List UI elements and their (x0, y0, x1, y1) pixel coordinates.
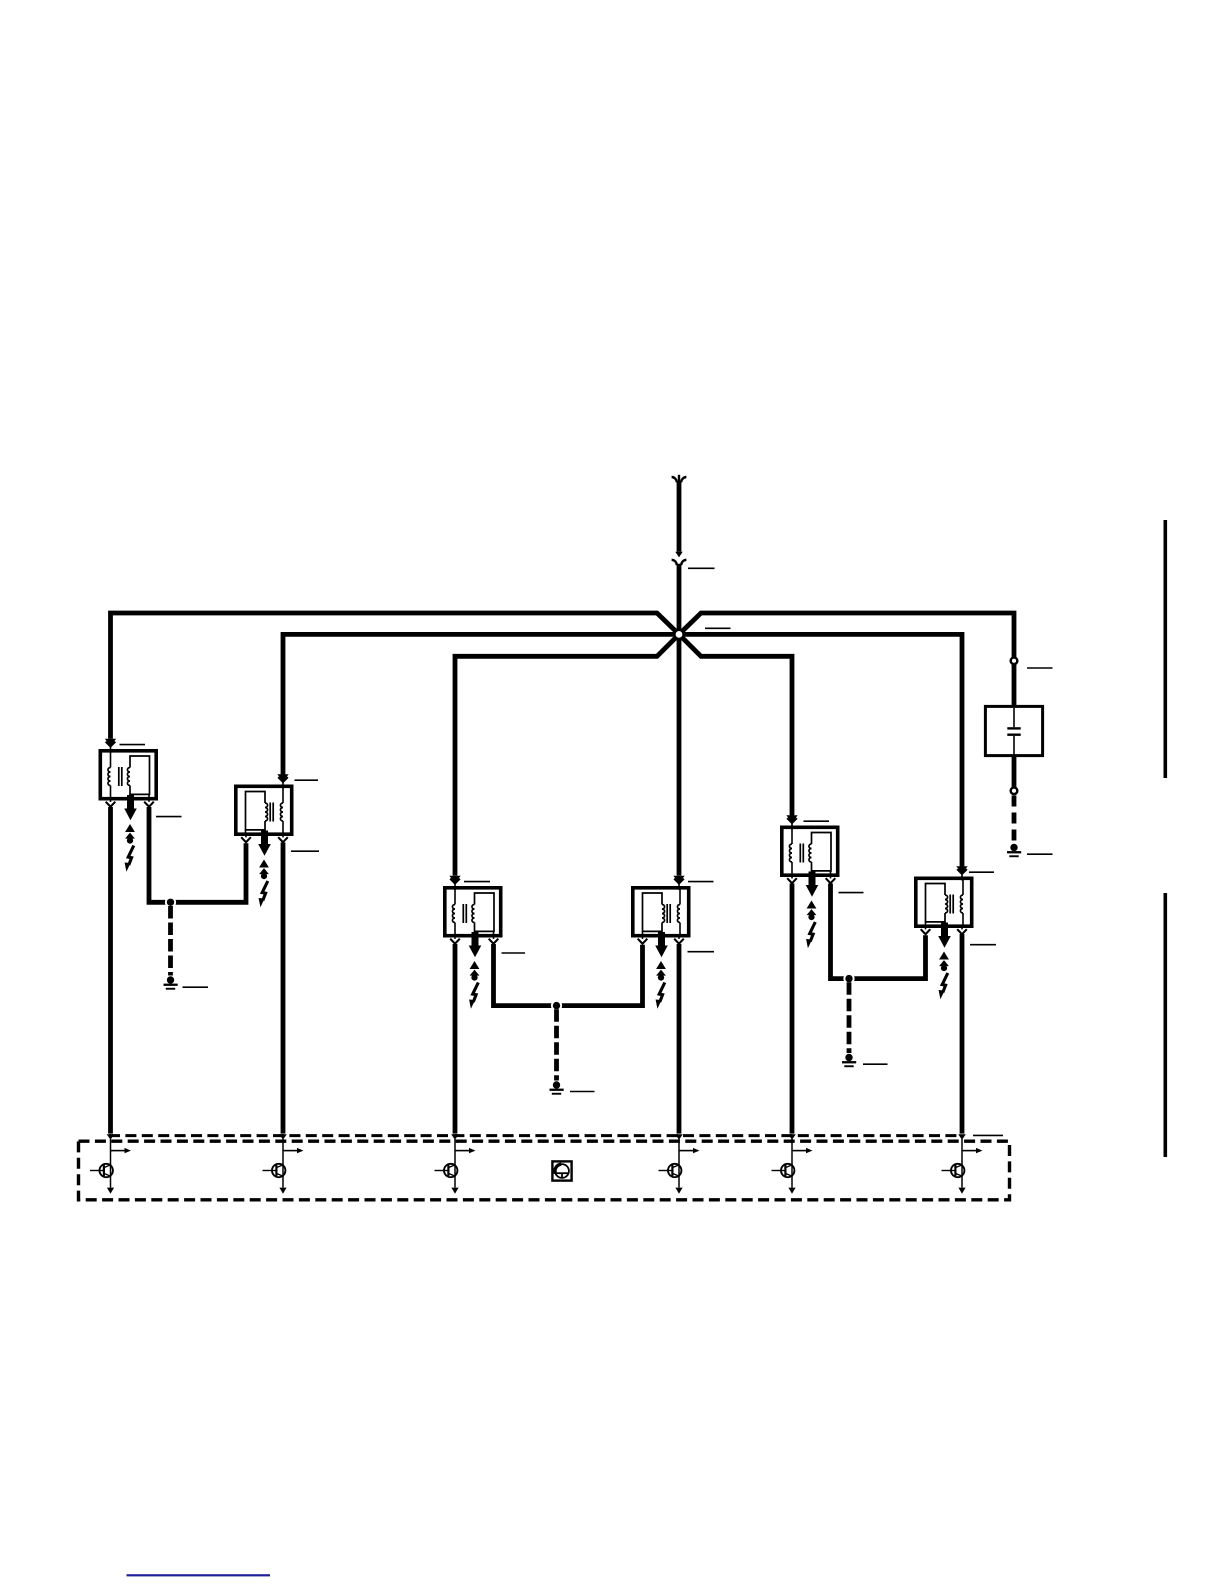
coil 5 bottom pins (791, 874, 793, 878)
wire: top-left bus to coil 1 (111, 613, 680, 739)
ECU output stage 5: internal line (791, 1139, 793, 1188)
wire: coil 6 primary to ECU (960, 934, 965, 1134)
coil N158 (coil 3) secondary winding (475, 893, 495, 931)
coil N189 (coil 6) primary winding (962, 880, 964, 896)
ECU output stage 1: branch arrow (111, 1150, 126, 1152)
ECU output stage 6: transistor (951, 1164, 964, 1177)
ECU (engine control unit, dashed box) (79, 1141, 1010, 1200)
ECU output stage 6: internal line (961, 1139, 963, 1188)
ground symbol coils 5+6 (845, 1054, 852, 1061)
connector into coil N158 (449, 876, 460, 883)
wire: coil 1 primary to ECU (108, 807, 113, 1134)
ignition coil N163 (coil 4) (box) (633, 888, 689, 936)
coil N128 (coil 2) primary winding (282, 788, 284, 804)
ECU output stage 3: entry arrow (451, 1134, 459, 1139)
connector dot above capacitor (1011, 658, 1018, 665)
ECU output stage 2: internal line (282, 1139, 284, 1188)
label leader coil6 top (969, 871, 994, 873)
dashed ground wire capacitor (1012, 796, 1017, 843)
label leader coil1 top (120, 744, 146, 746)
wire below capacitor (1012, 755, 1017, 787)
ECU output stage 2: emitter arrow to ground rail (279, 1188, 286, 1194)
label leader ECU (973, 1134, 1003, 1136)
dashed ground wire 1+2 (168, 906, 173, 976)
wire: main supply from top (terminal 15 feed) (677, 481, 682, 552)
coil 1 bottom pins (110, 798, 112, 802)
ECU output stage 6: emitter arrow to ground rail (958, 1188, 965, 1194)
label leader coil4 output (688, 951, 715, 953)
ECU output stage 3: emitter arrow to ground rail (451, 1188, 458, 1194)
coil N163 (coil 4) HV output with spark plug (658, 932, 665, 946)
coil N (coil 1) HV output with spark plug (127, 795, 134, 809)
ECU output stage 3: branch arrow (455, 1150, 470, 1152)
coil N158 (coil 3) core (462, 904, 464, 923)
connector dot below capacitor (1011, 788, 1018, 795)
connector into coil N128 (277, 774, 288, 781)
ECU output stage 5: entry arrow (788, 1134, 796, 1139)
ECU output stage 2: transistor (272, 1164, 285, 1177)
label leader junction (705, 627, 731, 629)
wire: middle-left bus to coil 2 (283, 634, 679, 774)
junction dot on link 3+4 (551, 1000, 562, 1011)
ECU output stage 3: internal line (454, 1139, 456, 1188)
ECU connector rail (inner dashed line) (109, 1134, 962, 1137)
wire: coil 3 primary to ECU (453, 944, 458, 1134)
ECU output stage 1: entry arrow (107, 1134, 115, 1139)
coil N189 (coil 6) HV output with spark plug (941, 923, 948, 937)
ECU output stage 4: internal line (678, 1139, 680, 1188)
label leader coil5 top (804, 820, 830, 822)
ground symbol capacitor (1010, 844, 1017, 851)
coil N189 (coil 6) core (949, 895, 951, 914)
ECU output stage 5: emitter arrow to ground rail (788, 1188, 795, 1194)
ECU output stage 1: transistor (100, 1164, 113, 1177)
label leader connector (688, 567, 715, 569)
label leader coil3 top (464, 881, 490, 883)
wire: secondary ground link coils 1+2 (149, 807, 246, 902)
page margin bar upper (1164, 520, 1168, 778)
coil N189 (coil 6) secondary winding (926, 884, 946, 922)
wire: bottom-left bus to coil 3 (455, 634, 679, 875)
label leader coil3 output (502, 952, 526, 954)
coil N164 (coil 5) primary winding (791, 829, 793, 845)
junction dot on link 5+6 (843, 973, 854, 984)
ECU output stage 4: emitter arrow to ground rail (675, 1188, 682, 1194)
wire: secondary ground link coils 3+4 (494, 944, 643, 1006)
coil N128 (coil 2) core (269, 803, 271, 822)
ECU output stage 5: branch arrow (792, 1150, 807, 1152)
label leader ground 5+6 (863, 1063, 888, 1065)
label leader ground capacitor (1027, 853, 1053, 855)
ECU output stage 4: transistor (668, 1164, 681, 1177)
ignition coil N158 (coil 3) (box) (445, 888, 501, 936)
ignition coil N (coil 1) (box) (100, 751, 156, 799)
label leader ground 3+4 (570, 1091, 595, 1093)
ECU output stage 6: branch arrow (962, 1150, 977, 1152)
ECU output stage 4: entry arrow (675, 1134, 683, 1139)
ECU output stage 1: emitter arrow to ground rail (107, 1188, 114, 1194)
coil N (coil 1) core (118, 767, 120, 786)
label leader coil6 output (970, 944, 996, 946)
ECU output stage 5: transistor (781, 1164, 794, 1177)
ECU output stage 4: branch arrow (679, 1150, 694, 1152)
connector into coil N163 (673, 876, 684, 883)
coil N158 (coil 3) primary winding (454, 889, 456, 905)
connector into coil N189 (956, 866, 967, 873)
label leader coil2 output (291, 850, 319, 852)
coil N (coil 1) secondary winding (130, 756, 150, 794)
label leader coil5 output (839, 892, 864, 894)
coil N163 (coil 4) primary winding (679, 889, 681, 905)
label leader coil2 top (295, 779, 319, 781)
ECU output stage 1: internal line (110, 1139, 112, 1188)
coil N164 (coil 5) HV output with spark plug (809, 872, 816, 886)
wire: coil 2 primary to ECU (281, 843, 286, 1134)
ignition coil N189 (coil 6) (box) (916, 878, 972, 926)
junction node (connection point) (675, 630, 684, 639)
coil 2 bottom pins (245, 833, 247, 837)
ECU output stage 6: entry arrow (958, 1134, 966, 1139)
wire: main vertical down to coil 4 (677, 564, 682, 876)
ECU output stage 3: transistor (444, 1164, 457, 1177)
wire: middle-right bus to coil 6 (679, 634, 962, 866)
ECU symbol (control unit icon) (552, 1161, 571, 1180)
coil 4 bottom pins (642, 935, 644, 939)
label leader coil4 top (688, 881, 714, 883)
coil N164 (coil 5) secondary winding (812, 833, 832, 871)
wire: bottom-right bus to coil 5 (679, 634, 792, 815)
connector into coil N (105, 739, 116, 746)
dashed ground wire 5+6 (847, 982, 852, 1053)
ignition coil N128 (coil 2) (box) (236, 786, 292, 834)
ground symbol coils 1+2 (167, 976, 174, 983)
wire: coil 5 primary to ECU (790, 884, 795, 1134)
footer link underline (127, 1574, 271, 1576)
coil 3 bottom pins (454, 935, 456, 939)
wire start symbol (flared end) (678, 475, 680, 483)
page margin bar lower (1164, 893, 1168, 1157)
wire: top-right bus to capacitor (679, 613, 1014, 706)
coil N128 (coil 2) HV output with spark plug (261, 831, 268, 845)
coil 6 bottom pins (925, 925, 927, 929)
coil N163 (coil 4) core (666, 904, 668, 923)
coil N158 (coil 3) HV output with spark plug (472, 932, 479, 946)
junction dot on link 1+2 (165, 897, 176, 908)
connector into coil N164 (786, 815, 797, 822)
ECU output stage 2: entry arrow (279, 1134, 287, 1139)
coil N164 (coil 5) core (799, 844, 801, 863)
capacitor C (suppression capacitor) (985, 706, 1042, 755)
ground symbol coils 3+4 (553, 1081, 560, 1088)
coil N (coil 1) primary winding (110, 752, 112, 768)
coil N163 (coil 4) secondary winding (643, 893, 663, 931)
wire: coil 4 primary to ECU (677, 944, 682, 1134)
dashed ground wire 3+4 (554, 1009, 559, 1080)
label leader capacitor top (1027, 667, 1053, 669)
label leader coil1 output (156, 816, 182, 818)
label leader ground 1+2 (183, 986, 209, 988)
ignition coil N164 (coil 5) (box) (782, 827, 838, 875)
inline connector on main supply wire (675, 552, 682, 558)
coil N128 (coil 2) secondary winding (246, 792, 266, 830)
ECU output stage 2: branch arrow (283, 1150, 298, 1152)
wire: secondary ground link coils 5+6 (831, 884, 926, 979)
